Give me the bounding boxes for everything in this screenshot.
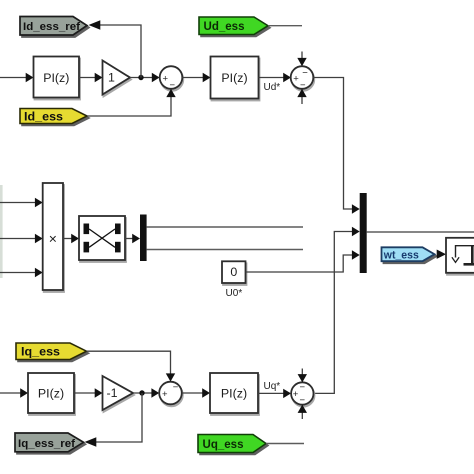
wire constant 0 to mux input 3 [246, 250, 360, 272]
sum S2 [291, 66, 314, 91]
cropped block edge at left [0, 185, 3, 278]
svg-text:PI(z): PI(z) [38, 387, 64, 401]
wire sum S1 to PI2 [182, 73, 210, 82]
svg-text:U0*: U0* [226, 288, 243, 299]
svg-text:Iq_ess_ref: Iq_ess_ref [18, 438, 75, 450]
wire sum Sq1 to PI4 [182, 388, 210, 397]
svg-text:-1: -1 [106, 386, 117, 400]
svg-text:−: − [300, 395, 306, 406]
wire stub into sum Sq2 bottom [298, 405, 307, 419]
goto tag Iq_ess_ref [15, 433, 84, 452]
svg-text:+: + [293, 73, 299, 84]
from tag Iq_ess [16, 343, 87, 360]
wire stub into sum S2 top [297, 52, 306, 67]
wire junction J2 to goto tag [85, 393, 143, 447]
mux bar M1 [360, 193, 367, 273]
svg-text:Uq_ess: Uq_ess [203, 437, 244, 451]
svg-text:Ud_ess: Ud_ess [204, 19, 245, 33]
from tag wt_ess [382, 247, 435, 261]
svg-text:Id_ess: Id_ess [24, 110, 63, 124]
wire PI3 to gain [74, 388, 103, 397]
block permute/crossover X2 [79, 216, 125, 260]
svg-text:0: 0 [230, 265, 237, 279]
from tag Id_ess [20, 109, 87, 124]
svg-text:Uq*: Uq* [264, 381, 281, 392]
svg-text:PI(z): PI(z) [221, 71, 247, 85]
wire Iq_ess to sum Sq1 top [87, 351, 176, 381]
svg-text:PI(z): PI(z) [43, 71, 69, 85]
constant block value 0 with label U0* [222, 261, 246, 283]
gain K2 value -1 [103, 376, 134, 410]
svg-text:−: − [302, 67, 308, 78]
wire permute to demux [125, 234, 140, 243]
goto tag Id_ess_ref [20, 17, 87, 36]
node junction J1 [138, 75, 143, 80]
wire mux output [367, 231, 474, 233]
wire demux output 1 [147, 226, 303, 228]
svg-text:+: + [163, 73, 169, 84]
wire wt_ess to scope block [437, 250, 446, 259]
svg-text:−: − [170, 80, 176, 91]
wire sum S2 to mux input 1 [313, 78, 359, 214]
wire sum Sq2 to mux input 2 [313, 227, 359, 394]
wire into product input 2 [0, 234, 43, 243]
wire gain to sum S1 [130, 73, 160, 82]
block PI(z) U4 (q-axis second) [210, 373, 258, 413]
gain K1 value 1 [103, 61, 131, 95]
svg-text:−: − [300, 382, 306, 393]
wire from Uq_ess tag [266, 443, 304, 445]
wire Id_ess to sum S1 bottom [87, 89, 176, 116]
wire PI4 to sum Sq2 with label Uq* [258, 381, 291, 398]
svg-text:Iq_ess: Iq_ess [21, 345, 60, 359]
wire gain to sum Sq1 [133, 388, 159, 397]
svg-text:+: + [293, 389, 299, 400]
svg-text:wt_ess: wt_ess [383, 249, 419, 261]
wire stub into sum Sq2 top [298, 369, 307, 383]
block PI(z) U3 (q-axis first) [28, 373, 74, 413]
demux bar D1 [140, 215, 147, 262]
from tag Ud_ess [199, 17, 268, 35]
block scope/unwrap icon [446, 238, 474, 273]
svg-text:−: − [173, 382, 179, 393]
wire product to permute block [63, 234, 79, 243]
svg-text:Ud*: Ud* [264, 82, 281, 93]
svg-text:1: 1 [108, 71, 115, 85]
svg-text:+: + [162, 389, 168, 400]
wire into product input 3 [0, 268, 43, 277]
block PI(z) U1 (d-axis first) [34, 57, 80, 98]
wire junction J1 to goto tag [89, 20, 142, 77]
wire from Ud_ess tag [268, 25, 302, 27]
from tag Uq_ess [198, 435, 266, 453]
wire PI2 to sum S2 with label Ud* [259, 73, 292, 93]
wire into product input 1 [0, 198, 43, 207]
block product X1 [43, 183, 63, 290]
block PI(z) U2 (d-axis second) [211, 57, 259, 99]
sum S1 [160, 66, 183, 91]
node junction J2 [139, 390, 144, 395]
wire stub into sum S2 bottom [297, 89, 306, 104]
sum Sq2 [291, 382, 313, 406]
svg-text:Id_ess_ref: Id_ess_ref [23, 21, 80, 33]
wire PI1 to gain [79, 73, 103, 82]
wire demux output 2 [147, 249, 303, 251]
wire input d-axis [0, 73, 34, 82]
svg-text:PI(z): PI(z) [221, 387, 247, 401]
svg-text:×: × [49, 231, 57, 247]
sum Sq1 [159, 382, 182, 405]
wire input q-axis [0, 388, 28, 397]
svg-text:−: − [300, 80, 306, 91]
